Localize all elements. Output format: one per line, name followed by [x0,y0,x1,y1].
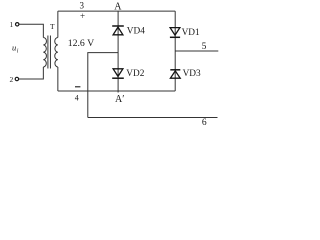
svg-text:A: A [114,2,122,13]
wire mid-left (minus output tap) [88,53,118,118]
svg-text:VD2: VD2 [126,69,144,79]
wire left bridge branch [117,11,119,92]
svg-text:VD4: VD4 [127,27,145,37]
wire secondary top to node 3 rail [57,11,59,37]
wire A-prime rail [58,90,175,92]
wire bottom output to terminal 6 [88,116,218,118]
svg-text:i: i [17,48,19,54]
diode VD4 [112,26,124,35]
wire right bridge branch [174,11,176,91]
wire terminal1 to transformer [19,24,43,37]
diode VD1 [170,28,180,38]
svg-text:T: T [50,22,55,31]
svg-text:4: 4 [75,93,79,102]
wire top rail (node 3 / A) [58,10,175,12]
svg-text:+: + [80,11,85,21]
transformer core [48,36,51,69]
wire secondary bottom [57,67,59,91]
svg-text:12.6 V: 12.6 V [68,38,95,49]
svg-text:6: 6 [202,118,207,128]
wire terminal2 to transformer [19,67,44,79]
diode VD3 [170,70,180,78]
svg-text:u: u [12,42,16,52]
svg-text:VD1: VD1 [182,28,200,38]
svg-text:1: 1 [10,20,14,29]
svg-text:2: 2 [10,75,14,84]
transformer T secondary coil [55,38,58,68]
svg-text:A′: A′ [115,94,124,105]
terminal 2 [15,77,18,80]
svg-text:3: 3 [79,0,84,10]
diode VD2 [112,69,124,78]
svg-text:5: 5 [202,42,207,52]
svg-text:VD3: VD3 [183,69,201,79]
label minus [75,86,80,88]
transformer T primary coil [43,38,46,68]
wire output 5 [175,50,218,52]
terminal 1 [16,23,19,26]
